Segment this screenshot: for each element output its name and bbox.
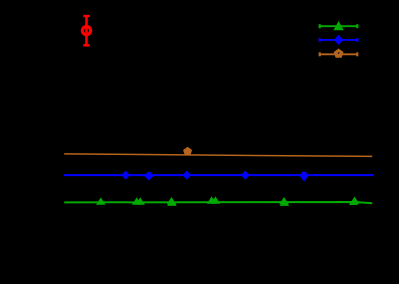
green data line (64, 196, 372, 206)
green triangle markers (96, 197, 106, 204)
legend entry green (320, 21, 358, 30)
blue data line (64, 171, 373, 182)
legend entry brown (320, 49, 358, 58)
brown data line (64, 147, 372, 157)
blue diamond markers (122, 171, 130, 180)
legend entry blue (320, 35, 358, 45)
brown pentagon marker (183, 147, 192, 156)
red errorbar data point (82, 16, 90, 46)
